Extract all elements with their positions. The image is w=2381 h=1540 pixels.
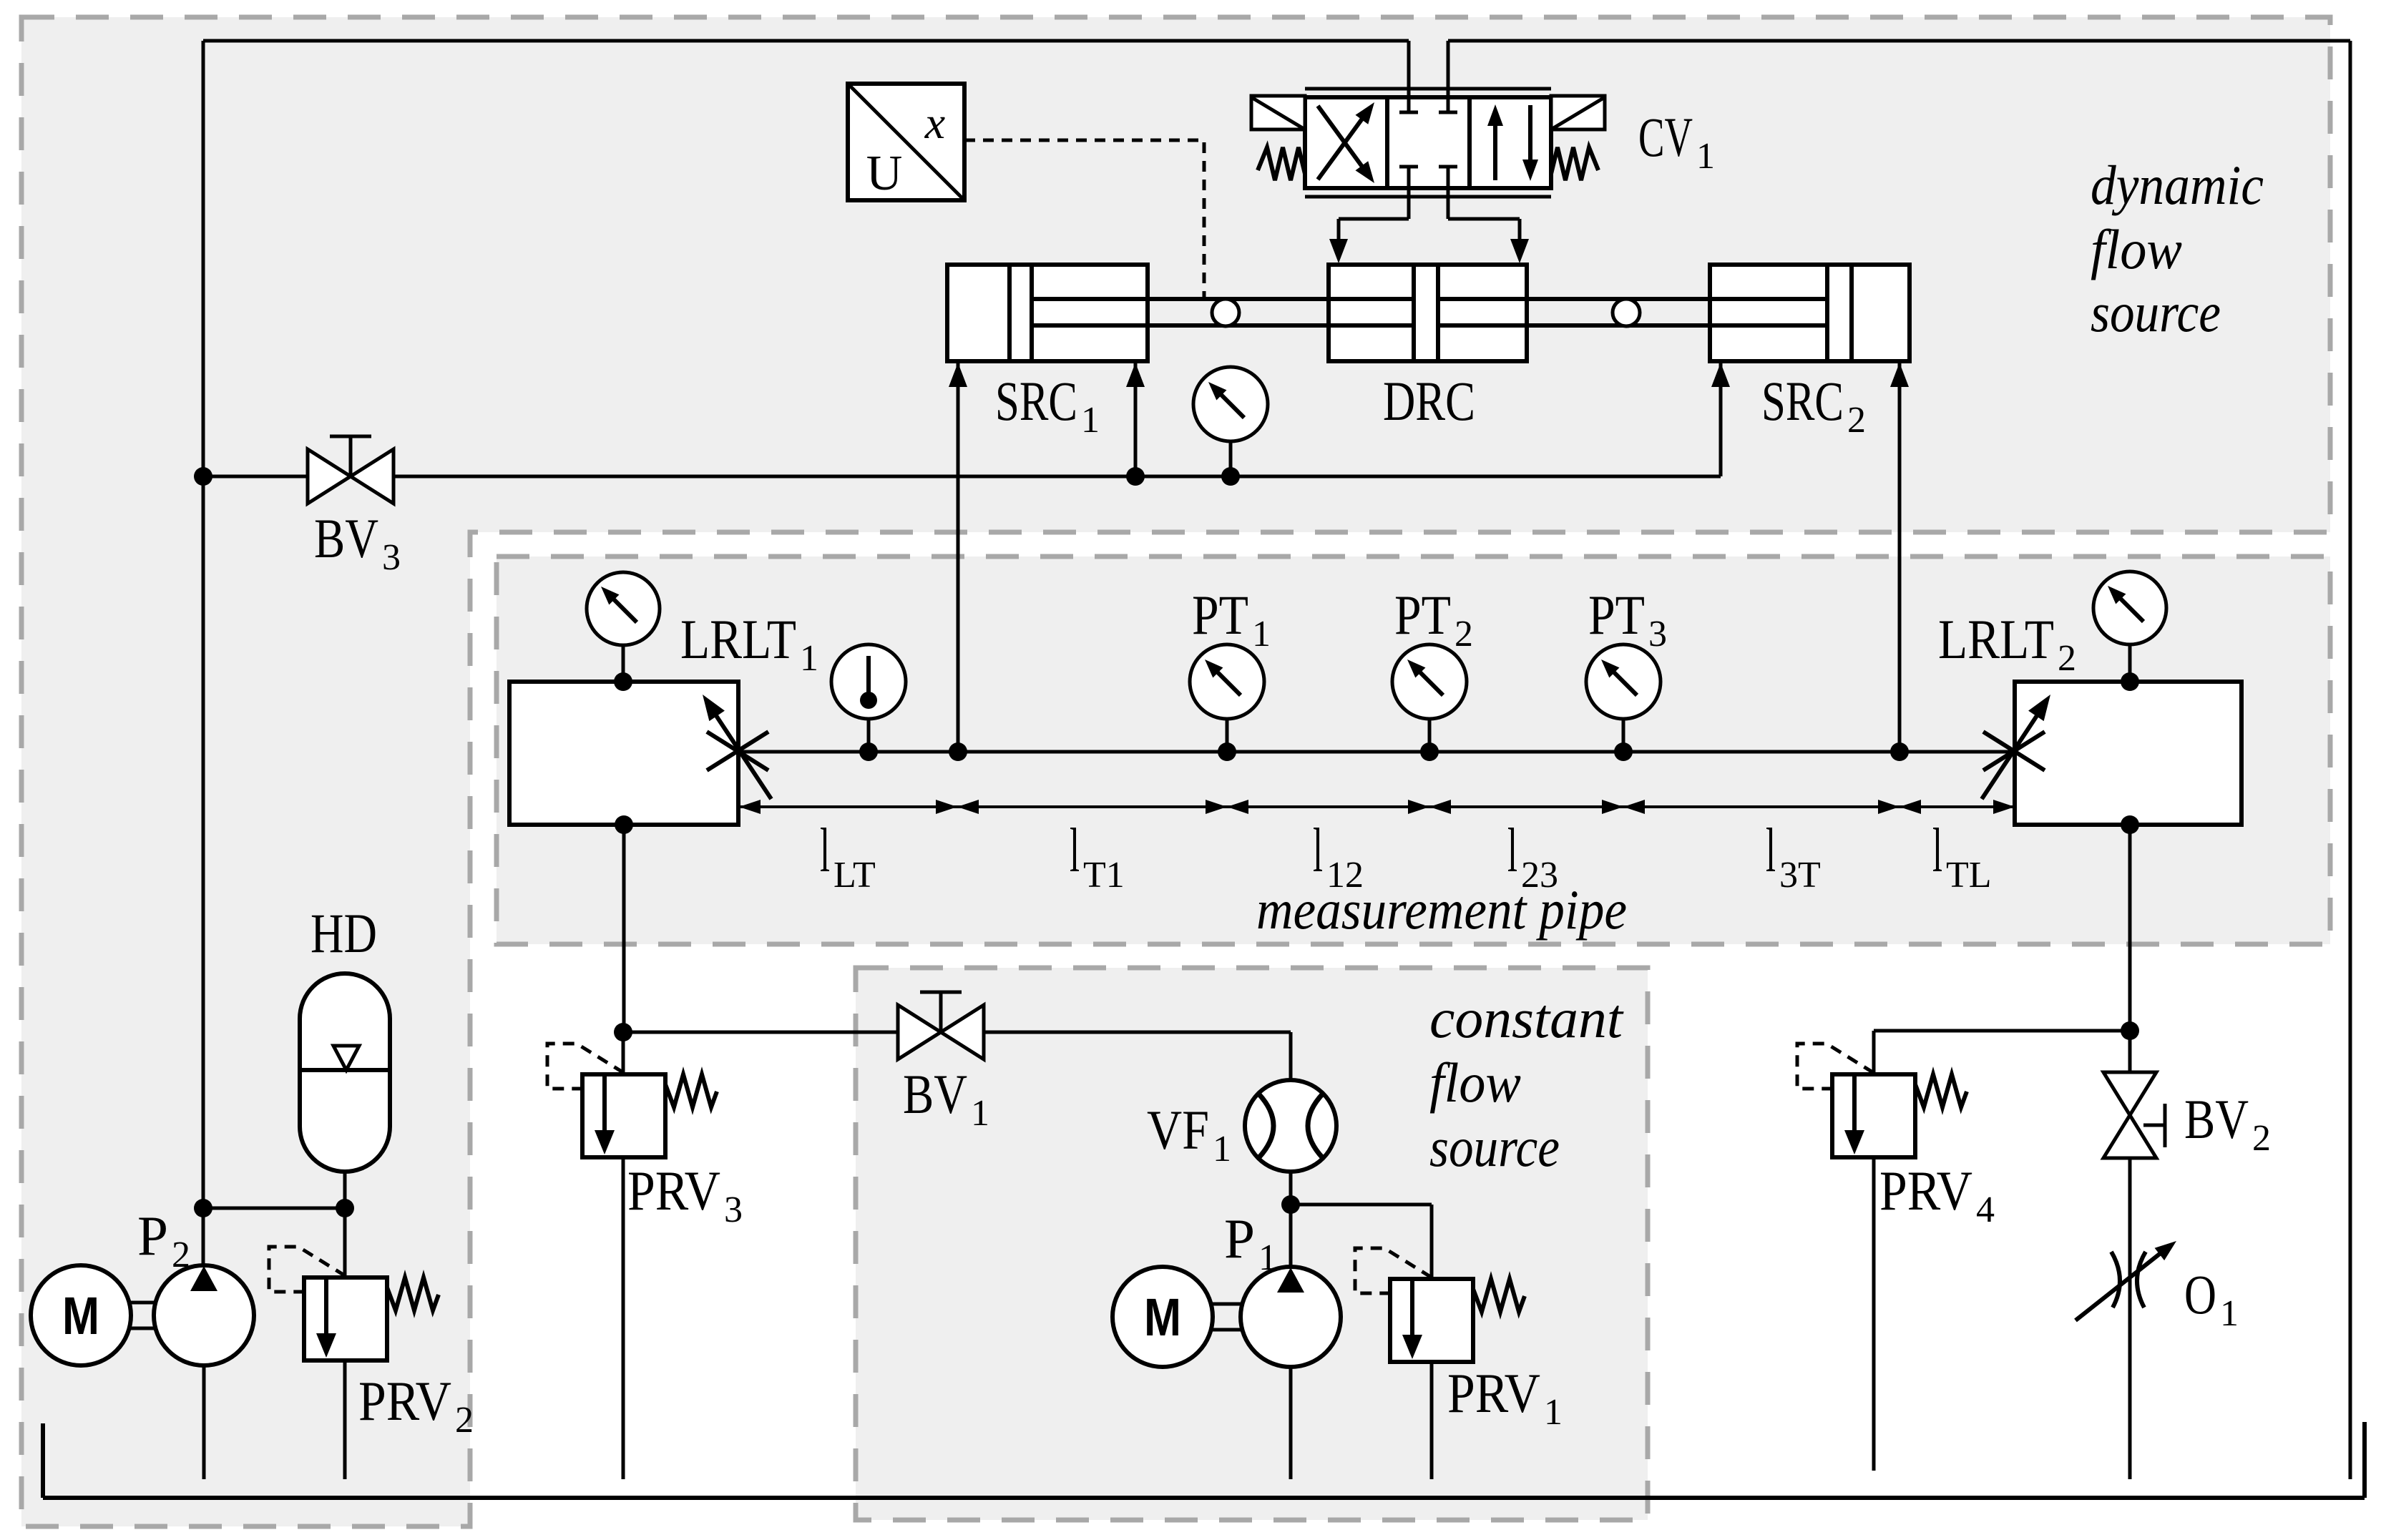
svg-text:CV: CV <box>1638 106 1693 168</box>
pump P2 <box>154 1265 254 1365</box>
svg-text:l: l <box>1507 816 1517 886</box>
svg-text:BV: BV <box>2184 1088 2249 1150</box>
wire: right margin vertical down to tank <box>2349 41 2352 1479</box>
LRLT2 top gauge <box>2093 572 2166 644</box>
svg-text:1: 1 <box>1081 400 1100 441</box>
wire: PRV3 junction to BV1 to VF1 <box>623 1031 1291 1034</box>
svg-text:constant: constant <box>1429 987 1624 1049</box>
svg-text:l: l <box>820 816 830 886</box>
signal line from transducer to rod (dashed) <box>964 140 1204 298</box>
wire: junction to pump P2 <box>202 1208 205 1266</box>
wire: P2 suction to tank <box>202 1366 206 1479</box>
svg-text:l: l <box>1070 816 1080 886</box>
wire: SRC1 right port drop to BV3 line <box>1134 361 1138 476</box>
svg-text:dynamic: dynamic <box>2091 154 2264 216</box>
PRV4 spring <box>1915 1074 1967 1107</box>
node: DRC gauge tap <box>1221 467 1240 486</box>
svg-text:LRLT: LRLT <box>1938 608 2054 670</box>
CV1 left centering spring <box>1258 147 1305 180</box>
flow meter VF1 <box>1245 1080 1336 1172</box>
svg-text:2: 2 <box>172 1235 190 1275</box>
node: SRC1 right port on BV3 line <box>1126 467 1145 486</box>
node: HD junction <box>336 1199 354 1217</box>
tank line <box>43 1496 2365 1500</box>
orifice O1 <box>2111 1252 2120 1308</box>
svg-text:O: O <box>2184 1263 2216 1325</box>
svg-text:HD: HD <box>311 902 377 964</box>
svg-text:PRV: PRV <box>358 1370 451 1432</box>
wire: top-left vertical from CV1 P-line down to BV3 node <box>202 41 205 478</box>
node: LRLT1 top <box>614 672 632 691</box>
CV1 right cell parallel arrows <box>1493 113 1497 180</box>
cylinder SRC2 body <box>1710 265 1910 361</box>
svg-text:PRV: PRV <box>627 1159 720 1222</box>
laminar resistance LRLT1 box <box>509 682 738 825</box>
svg-text:P: P <box>1224 1207 1255 1270</box>
node: P1/PRV1 junction <box>1281 1195 1300 1214</box>
node: PT1 tap <box>1218 742 1236 761</box>
PRV3 pilot line (dashed) <box>547 1044 624 1089</box>
svg-text:l: l <box>1932 816 1942 886</box>
wire: P1 suction to tank <box>1289 1368 1293 1479</box>
motor M for P2 <box>31 1265 131 1365</box>
node: LRLT2 bottom <box>2121 815 2139 834</box>
SRC2 rod inside <box>1710 297 1827 301</box>
svg-text:l: l <box>1766 816 1776 886</box>
svg-text:P: P <box>137 1205 168 1267</box>
svg-text:2: 2 <box>1847 400 1866 441</box>
proportional valve CV1 body (4/3) <box>1305 97 1551 188</box>
wire: SRC2 right port riser down to measurement pipe <box>1898 361 1902 752</box>
wire: SRC2 left port riser <box>1719 361 1723 476</box>
svg-text:PRV: PRV <box>1879 1159 1972 1222</box>
wire: CV1 A-port to DRC left <box>1339 217 1409 221</box>
PRV1 outlet to tank <box>1430 1362 1434 1479</box>
svg-text:2: 2 <box>2058 638 2076 679</box>
svg-text:flow: flow <box>2091 218 2182 280</box>
node: PT3 tap <box>1614 742 1633 761</box>
ball valve BV2 (vertical) <box>2103 1072 2156 1115</box>
position transducer U/x box <box>848 84 964 200</box>
cylinder SRC1 body <box>947 265 1148 361</box>
svg-text:1: 1 <box>1252 614 1271 654</box>
svg-text:DRC: DRC <box>1383 370 1475 432</box>
DRC piston <box>1412 265 1416 361</box>
LRLT1 top gauge <box>587 572 660 645</box>
pressure transducer PT2 <box>1392 644 1467 719</box>
tank right upturn <box>2362 1422 2367 1498</box>
node: PT2 tap <box>1420 742 1439 761</box>
svg-text:x: x <box>924 97 945 148</box>
node: BV3 line left junction <box>194 467 212 486</box>
wire: CV1 B-port to DRC right <box>1448 217 1520 221</box>
SRC1 piston <box>1007 265 1012 361</box>
svg-text:1: 1 <box>1213 1129 1231 1169</box>
pressure transducer PT3 <box>1586 644 1661 719</box>
LRLT2 throttle symbol at pipe entry <box>1983 732 2045 770</box>
PRV3 outlet to tank <box>622 1157 625 1479</box>
PRV4 outlet to tank <box>1872 1157 1876 1471</box>
wire: LRLT2 bottom drop <box>2128 825 2132 1031</box>
PRV1 internal flow arrow <box>1410 1281 1414 1342</box>
rod ball joint 2 <box>1613 299 1640 326</box>
wire: left supply riser <box>202 476 205 1208</box>
node: thermometer tap on pipe <box>859 742 878 761</box>
P2 motor coupling <box>131 1301 154 1305</box>
node: LRLT1 bottom <box>615 815 633 834</box>
svg-text:PRV: PRV <box>1447 1362 1540 1424</box>
svg-text:LRLT: LRLT <box>680 608 796 670</box>
CV1 left solenoid tab <box>1251 96 1305 129</box>
PRV3 spring <box>665 1074 717 1107</box>
svg-text:PT: PT <box>1394 584 1451 646</box>
PRV2 spring <box>387 1277 439 1310</box>
svg-text:TL: TL <box>1946 855 1992 896</box>
node: PRV3 junction <box>614 1023 632 1041</box>
svg-text:PT: PT <box>1192 584 1248 646</box>
PRV2 pilot line (dashed) <box>269 1247 346 1292</box>
PRV4 internal flow arrow <box>1852 1076 1857 1137</box>
node: P2 junction <box>194 1199 212 1217</box>
wire: BV3 line from node to SRC2 left port riser <box>203 475 1721 479</box>
CV1 bottom port stubs from centre position <box>1407 167 1411 219</box>
svg-text:T1: T1 <box>1083 855 1125 896</box>
pressure transducer PT1 <box>1190 644 1264 719</box>
wire: measurement pipe <box>738 750 2015 754</box>
svg-text:2: 2 <box>2252 1118 2271 1159</box>
svg-text:M: M <box>62 1286 99 1345</box>
svg-text:1: 1 <box>1258 1237 1277 1278</box>
node: SRC1 tap on pipe <box>949 742 967 761</box>
wire: HD stem <box>343 1172 347 1208</box>
svg-text:SRC: SRC <box>1761 370 1844 432</box>
accumulator HD <box>300 973 390 1172</box>
node: SRC2 tap on pipe <box>1890 742 1909 761</box>
svg-text:3: 3 <box>724 1190 743 1230</box>
svg-text:3T: 3T <box>1779 855 1821 896</box>
svg-text:BV: BV <box>314 507 378 569</box>
svg-text:M: M <box>1144 1288 1181 1347</box>
PRV4 pilot line (dashed) <box>1797 1044 1874 1089</box>
svg-text:flow: flow <box>1429 1051 1521 1114</box>
wire: VF1 to P1 junction <box>1289 1172 1293 1205</box>
svg-text:1: 1 <box>800 638 818 679</box>
svg-text:U: U <box>866 146 903 201</box>
svg-text:source: source <box>1429 1116 1560 1178</box>
svg-text:VF: VF <box>1147 1099 1209 1161</box>
svg-text:SRC: SRC <box>995 370 1077 432</box>
dimension arrowheads <box>739 800 761 814</box>
PRV1 pilot line (dashed) <box>1355 1248 1432 1293</box>
wire: junction to BV2 <box>2128 1031 2132 1072</box>
tank left upturn <box>41 1423 45 1498</box>
PRV2 outlet to tank <box>343 1360 347 1479</box>
wire: junction to PRV1 <box>1291 1203 1432 1207</box>
svg-text:3: 3 <box>1648 614 1667 654</box>
region: measurement pipe box (gray, dashed) <box>497 556 2330 944</box>
wire: junction link <box>203 1207 345 1210</box>
svg-text:4: 4 <box>1976 1190 1995 1230</box>
dimension line under pipe <box>739 805 2015 808</box>
node: LRLT2 lower junction <box>2121 1021 2139 1040</box>
svg-text:1: 1 <box>971 1093 989 1134</box>
LRLT1 throttle symbol at pipe entry <box>707 732 768 770</box>
CV1 right solenoid tab <box>1551 96 1605 129</box>
CV1 proportional rails <box>1305 87 1551 91</box>
wire: SRC1 left port riser down to measurement pipe <box>957 361 960 752</box>
wire: LRLT1 bottom drop to PRV3 node <box>622 825 626 1032</box>
PRV3 internal flow arrow <box>602 1076 607 1137</box>
wire: junction to pump P1 <box>1289 1205 1293 1267</box>
SRC1 rod inside <box>1032 297 1148 301</box>
rod ball joint 1 <box>1212 299 1239 326</box>
node: LRLT2 top <box>2121 672 2139 691</box>
wire: junction to PRV4 <box>1874 1029 2130 1033</box>
piston rod connecting cylinders <box>1032 297 1827 301</box>
SRC1 port arrows <box>949 363 967 387</box>
ball valve BV3 <box>308 449 351 504</box>
pump P1 <box>1241 1267 1341 1367</box>
svg-text:2: 2 <box>1454 614 1473 654</box>
cylinder DRC body <box>1329 265 1527 361</box>
CV1 left cell crossed arrows <box>1318 106 1368 175</box>
svg-text:2: 2 <box>455 1400 474 1441</box>
P1 motor coupling <box>1213 1303 1241 1306</box>
svg-text:source: source <box>2091 281 2221 343</box>
svg-text:measurement pipe: measurement pipe <box>1256 878 1627 941</box>
svg-text:LT: LT <box>833 855 876 896</box>
laminar resistance LRLT2 box <box>2015 682 2241 825</box>
DRC rod inside <box>1329 297 1414 301</box>
svg-text:PT: PT <box>1588 584 1645 646</box>
LRLT2 gauge stem <box>2128 644 2132 682</box>
CV1 top port stubs into centre position <box>1407 41 1411 112</box>
PRV1 spring <box>1473 1279 1525 1312</box>
PRV2 internal flow arrow <box>324 1280 328 1340</box>
wire: BV2 to O1 to tank <box>2128 1158 2132 1479</box>
wire: junction to PRV2 <box>343 1208 347 1277</box>
svg-text:l: l <box>1313 816 1323 886</box>
wire: top horizontal from CV1 right top port to right margin <box>1448 39 2350 43</box>
svg-text:1: 1 <box>1696 136 1715 177</box>
pressure relief valve PRV4 body <box>1832 1074 1915 1157</box>
ball valve BV1 <box>898 1005 941 1059</box>
CV1 right centering spring <box>1551 147 1598 180</box>
thermometer on pipe <box>831 644 906 719</box>
thermometer stem <box>867 719 871 752</box>
wire: DRC gauge stem to BV3 line <box>1229 441 1233 476</box>
svg-text:1: 1 <box>1544 1392 1563 1433</box>
pressure relief valve PRV2 body <box>304 1277 387 1360</box>
LRLT1 gauge stem <box>622 645 625 682</box>
pressure relief valve PRV3 body <box>582 1074 665 1157</box>
motor M for P1 <box>1113 1267 1213 1367</box>
svg-text:BV: BV <box>903 1063 967 1125</box>
SRC2 piston <box>1825 265 1829 361</box>
wire: top horizontal to CV1 left top port <box>203 39 1409 43</box>
svg-text:3: 3 <box>382 537 401 578</box>
wire: PRV3 inlet <box>622 1032 625 1074</box>
svg-text:1: 1 <box>2220 1293 2239 1334</box>
region: constant flow source box (gray, dashed) <box>856 968 1648 1520</box>
pressure relief valve PRV1 body <box>1390 1279 1473 1362</box>
gauge between SRC1 and DRC <box>1193 367 1268 441</box>
SRC2 port arrows <box>1711 363 1730 387</box>
